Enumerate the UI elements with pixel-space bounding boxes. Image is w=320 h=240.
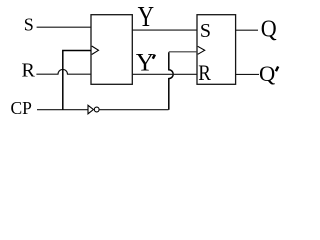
svg-text:Q: Q (259, 61, 275, 86)
svg-text:R: R (198, 60, 211, 85)
svg-text:Q: Q (261, 15, 277, 42)
svg-text:CP: CP (11, 98, 33, 118)
svg-text:Y: Y (138, 0, 154, 32)
svg-text:S: S (200, 20, 211, 42)
svg-text:S: S (24, 15, 34, 35)
svg-text:Y: Y (136, 47, 154, 76)
svg-text:R: R (22, 60, 36, 82)
